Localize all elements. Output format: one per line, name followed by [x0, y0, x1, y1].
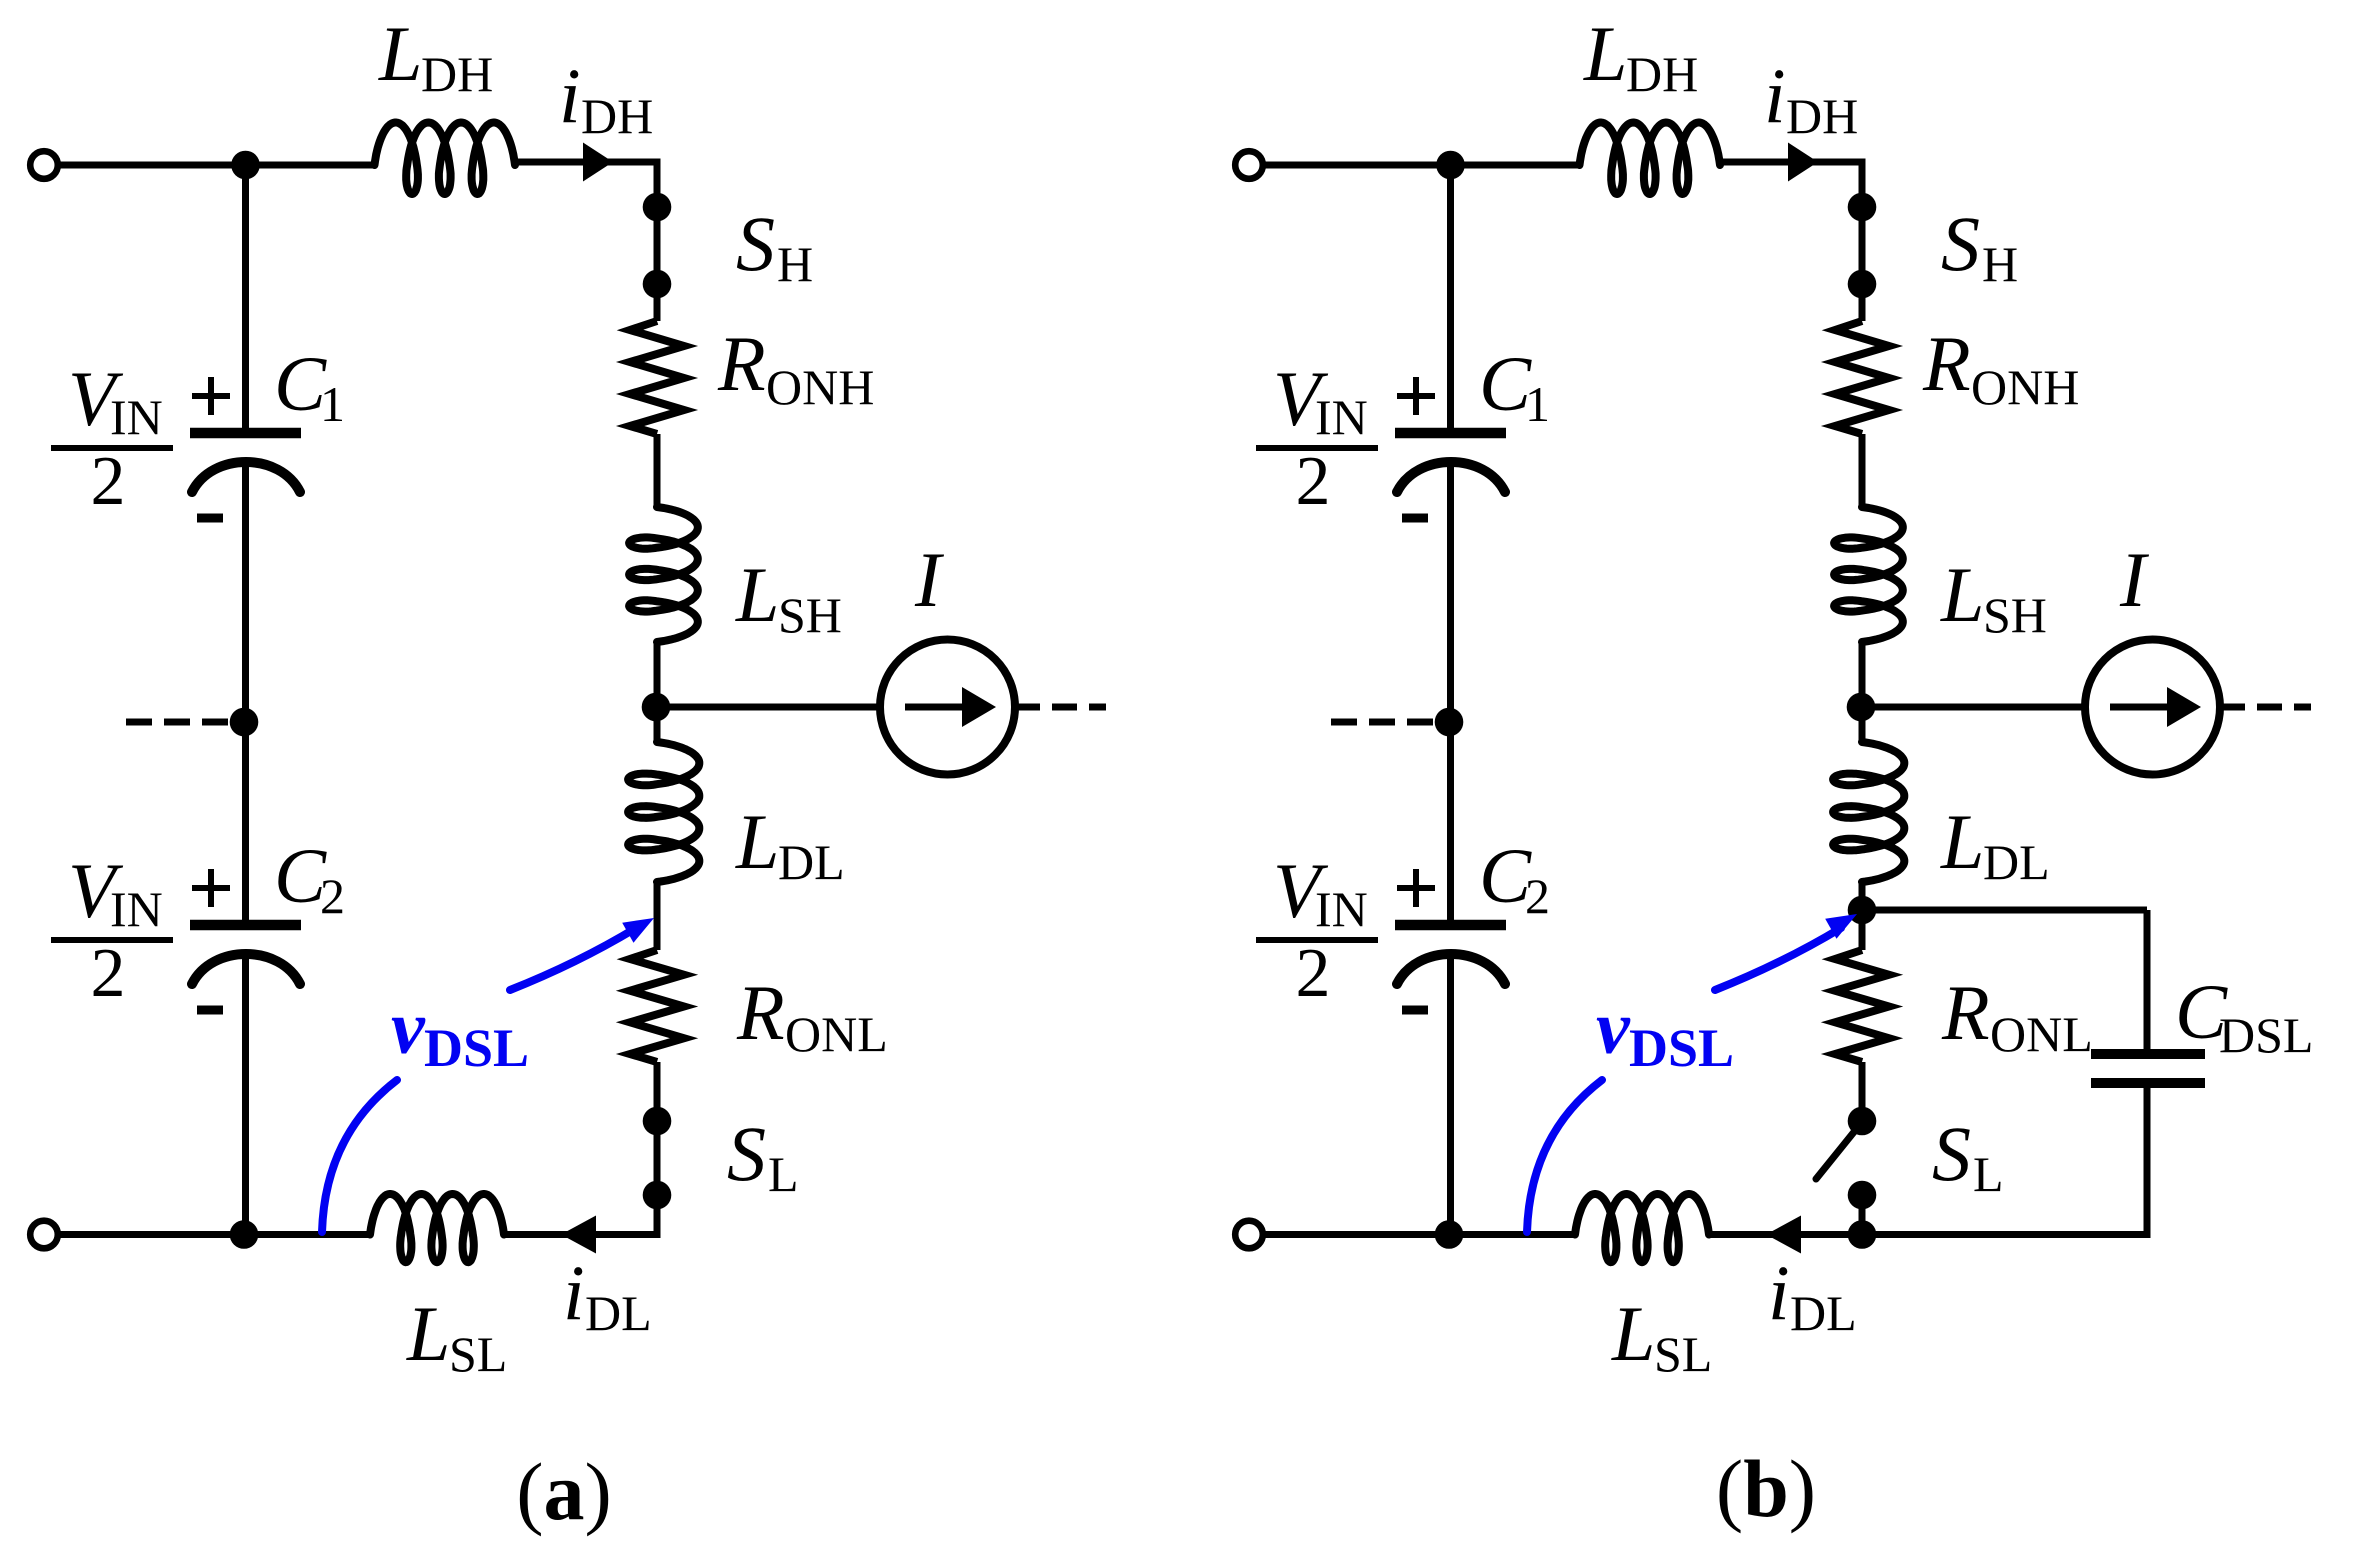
svg-text:IN: IN: [110, 881, 163, 937]
svg-text:L: L: [1611, 1290, 1655, 1377]
svg-text:IN: IN: [1315, 881, 1368, 937]
svg-text:IN: IN: [110, 389, 163, 445]
node input junction bottom (b): [1435, 1220, 1464, 1249]
svg-text:DL: DL: [1790, 1285, 1857, 1341]
capacitor C_DSL plate top (b): [2091, 1049, 2205, 1059]
current source arrow (a): [905, 704, 962, 711]
svg-text:L: L: [1940, 798, 1984, 885]
arrow i_DH (b): [1788, 143, 1818, 182]
node bottom junction (b): [1848, 1220, 1877, 1249]
wire output to current source (a): [657, 704, 880, 711]
node midpoint (b): [1435, 708, 1464, 737]
node input junction bottom (a): [230, 1220, 259, 1249]
switch S_L blade open (b): [1816, 1122, 1862, 1179]
svg-text:H: H: [1982, 236, 2018, 292]
node v_DSL sense (b): [1848, 896, 1877, 925]
node midpoint (a): [230, 708, 259, 737]
inductor L_DL (a): [628, 742, 699, 882]
svg-text:1: 1: [320, 376, 345, 432]
annotation v_DSL curve (b): [1527, 1080, 1602, 1232]
capacitor C1 plate- (a): [192, 462, 300, 492]
svg-text:SH: SH: [778, 587, 842, 643]
svg-text:v: v: [1596, 986, 1631, 1070]
wire left rail top (b): [1447, 165, 1454, 438]
wire S_L to bottom corner (a): [654, 1195, 661, 1231]
capacitor C2 plate+ (b): [1395, 920, 1506, 931]
arrow i_DH (a): [583, 143, 613, 182]
svg-text:(a): (a): [516, 1446, 612, 1537]
wire L_DL to R_ONL (b): [1859, 882, 1866, 950]
svg-text:SL: SL: [1654, 1326, 1712, 1382]
wire bottom junction to C_DSL (b): [1862, 1231, 2147, 1238]
svg-text:2: 2: [320, 868, 345, 924]
svg-text:H: H: [777, 236, 813, 292]
svg-text:2: 2: [1296, 935, 1331, 1012]
resistor R_ONH (b): [1835, 321, 1889, 434]
wire bottom-right (a): [504, 1231, 598, 1238]
svg-text:DL: DL: [778, 834, 845, 890]
wire top-right (b): [1718, 159, 1866, 166]
annotation v_DSL arrow (a): [510, 928, 636, 990]
wire node to C_DSL top (b): [1862, 907, 2147, 914]
svg-text:L: L: [735, 551, 779, 638]
node S_L bottom (b): [1848, 1181, 1877, 1210]
wire top-right (a): [513, 159, 661, 166]
capacitor C2 plate- (a): [192, 954, 300, 984]
capacitor C1 plate+ (a): [190, 428, 301, 439]
arrow i_DL (a): [561, 1216, 596, 1254]
wire switch S_H segment (b): [1859, 159, 1866, 322]
annotation v_DSL curve (a): [322, 1080, 397, 1232]
terminal input- (b): [1235, 1221, 1263, 1249]
svg-text:v: v: [391, 986, 426, 1070]
wire dashed midpoint stub (a): [126, 719, 228, 726]
wire bottom-left (a): [58, 1231, 371, 1238]
wire bottom-right (b): [1709, 1231, 1803, 1238]
terminal input- (a): [30, 1221, 58, 1249]
svg-text:ONL: ONL: [785, 1006, 888, 1062]
inductor L_DH (b): [1580, 123, 1721, 195]
wire dashed output (a): [1015, 704, 1106, 711]
svg-text:DSL: DSL: [1629, 1018, 1734, 1078]
svg-text:I: I: [914, 536, 945, 623]
svg-text:DH: DH: [1626, 46, 1698, 102]
svg-text:i: i: [1768, 1249, 1790, 1336]
inductor L_DH (a): [375, 123, 516, 195]
svg-text:ONH: ONH: [766, 359, 874, 415]
terminal input+ (a): [30, 151, 58, 179]
svg-text:IN: IN: [1315, 389, 1368, 445]
node S_L bottom (a): [643, 1181, 672, 1210]
node S_H top (b): [1848, 193, 1877, 222]
svg-text:2: 2: [91, 443, 126, 520]
svg-text:i: i: [559, 52, 581, 139]
capacitor C_DSL plate bottom (b): [2091, 1078, 2205, 1088]
wire L_SH to L_DL (a): [654, 642, 661, 742]
svg-text:DH: DH: [421, 46, 493, 102]
capacitor C2 plate- (b): [1397, 954, 1505, 984]
svg-text:L: L: [378, 10, 422, 97]
label C2 polarity - (b): [1402, 1006, 1428, 1015]
svg-text:DL: DL: [585, 1285, 652, 1341]
terminal input+ (b): [1235, 151, 1263, 179]
wire left rail bottom (b): [1447, 953, 1454, 1235]
svg-text:ONL: ONL: [1990, 1006, 2093, 1062]
wire dashed midpoint stub (b): [1331, 719, 1433, 726]
svg-text:L: L: [735, 798, 779, 885]
annotation v_DSL arrow (b): [1715, 928, 1841, 990]
svg-text:DSL: DSL: [424, 1018, 529, 1078]
svg-text:R: R: [736, 969, 785, 1056]
inductor L_DL (b): [1833, 742, 1904, 882]
svg-text:S: S: [727, 1110, 766, 1197]
wire switch S_H segment (a): [654, 159, 661, 322]
svg-text:1: 1: [1525, 376, 1550, 432]
label C1 polarity - (a): [197, 514, 223, 523]
label C1 polarity - (b): [1402, 514, 1428, 523]
wire dashed output (b): [2220, 704, 2311, 711]
svg-text:R: R: [1922, 320, 1971, 407]
wire top-left (a): [58, 162, 375, 169]
resistor R_ONH (a): [630, 321, 684, 434]
node input junction top (b): [1436, 151, 1465, 180]
svg-text:S: S: [1941, 200, 1980, 287]
current source I (b): [2085, 640, 2220, 775]
node S_H bottom (a): [643, 270, 672, 299]
svg-text:L: L: [1973, 1146, 2004, 1202]
svg-text:R: R: [1941, 969, 1990, 1056]
wire L_SH to L_DL (b): [1859, 642, 1866, 742]
svg-text:S: S: [1932, 1110, 1971, 1197]
inductor L_SH (b): [1834, 507, 1903, 642]
svg-text:R: R: [717, 320, 766, 407]
wire bottom-left (b): [1263, 1231, 1576, 1238]
node S_H top (a): [643, 193, 672, 222]
wire R_ONH to L_SH (a): [654, 434, 661, 507]
svg-text:2: 2: [1296, 443, 1331, 520]
inductor L_SL (a): [370, 1194, 504, 1262]
capacitor C2 plate+ (a): [190, 920, 301, 931]
wire arrow segment (b): [1803, 1231, 1862, 1238]
svg-text:DSL: DSL: [2219, 1007, 2313, 1063]
svg-text:L: L: [1583, 10, 1627, 97]
svg-text:DH: DH: [581, 88, 653, 144]
svg-text:L: L: [406, 1290, 450, 1377]
wire left rail top (a): [242, 165, 249, 438]
current source I (a): [880, 640, 1015, 775]
wire left rail mid (a): [242, 461, 249, 920]
wire C_DSL bottom (b): [2144, 1088, 2151, 1235]
resistor R_ONL (a): [630, 950, 684, 1062]
svg-text:ONH: ONH: [1971, 359, 2079, 415]
svg-text:2: 2: [91, 935, 126, 1012]
inductor L_SH (a): [629, 507, 698, 642]
label C1 polarity + (a): [192, 393, 230, 399]
wire left rail mid (b): [1447, 461, 1454, 920]
svg-text:S: S: [736, 200, 775, 287]
node input junction top (a): [231, 151, 260, 180]
arrow i_DL (b): [1766, 1216, 1801, 1254]
svg-text:I: I: [2119, 536, 2150, 623]
wire top-left (b): [1263, 162, 1580, 169]
svg-text:DL: DL: [1983, 834, 2050, 890]
label C1 polarity + (b): [1397, 393, 1435, 399]
node S_L top (a): [643, 1107, 672, 1136]
svg-text:SL: SL: [449, 1326, 507, 1382]
inductor L_SL (b): [1575, 1194, 1709, 1262]
label C2 polarity + (a): [192, 885, 230, 891]
svg-text:2: 2: [1525, 868, 1550, 924]
node S_L top (b): [1848, 1107, 1877, 1136]
wire R_ONL to S_L (a): [654, 1062, 661, 1195]
wire R_ONL to S_L (b): [1859, 1062, 1866, 1122]
resistor R_ONL (b): [1835, 950, 1889, 1062]
capacitor C1 plate+ (b): [1395, 428, 1506, 439]
current source arrow (b): [2110, 704, 2167, 711]
wire L_DL to R_ONL (a): [654, 882, 661, 950]
svg-text:i: i: [1764, 52, 1786, 139]
wire R_ONH to L_SH (b): [1859, 434, 1866, 507]
label C2 polarity + (b): [1397, 885, 1435, 891]
wire output to current source (b): [1862, 704, 2085, 711]
capacitor C1 plate- (b): [1397, 462, 1505, 492]
node output (a): [642, 693, 671, 722]
node output (b): [1847, 693, 1876, 722]
svg-text:(b): (b): [1716, 1443, 1816, 1534]
wire left rail bottom (a): [242, 953, 249, 1235]
svg-text:L: L: [1940, 551, 1984, 638]
svg-text:SH: SH: [1983, 587, 2047, 643]
svg-text:DH: DH: [1786, 88, 1858, 144]
label C2 polarity - (a): [197, 1006, 223, 1015]
svg-text:L: L: [768, 1146, 799, 1202]
wire S_L bottom to junction (b): [1859, 1195, 1866, 1235]
svg-text:i: i: [563, 1249, 585, 1336]
node S_H bottom (b): [1848, 270, 1877, 299]
